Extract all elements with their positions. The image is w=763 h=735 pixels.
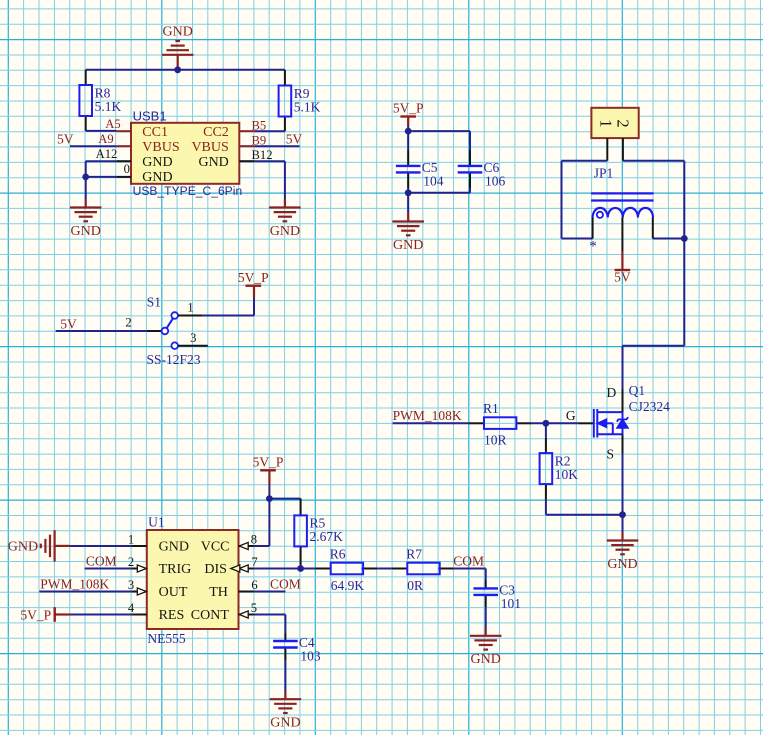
wire GND A12	[86, 160, 117, 162]
resistor R6 64.9K	[330, 546, 365, 593]
svg-text:64.9K: 64.9K	[331, 578, 365, 593]
svg-text:TRIG: TRIG	[159, 562, 192, 577]
wire up to 5V_P	[253, 298, 255, 316]
power stem left GND	[85, 199, 87, 208]
svg-text:GND: GND	[198, 155, 228, 170]
svg-text:TH: TH	[209, 585, 228, 600]
pin 4 RES	[131, 614, 146, 616]
power stem 5V_P pin4	[55, 613, 70, 615]
svg-text:VBUS: VBUS	[142, 140, 179, 155]
svg-text:CC1: CC1	[142, 125, 168, 140]
wire pin7 to R6	[254, 568, 315, 570]
wire C3 to GND	[485, 607, 487, 627]
svg-text:1: 1	[128, 532, 134, 546]
power stem GND pin1	[55, 545, 70, 547]
svg-text:7: 7	[251, 555, 257, 569]
wire right loop bottom	[653, 238, 685, 240]
svg-text:CJ2324: CJ2324	[629, 399, 671, 414]
transformer JP1 core lines	[591, 193, 654, 200]
svg-text:USB_TYPE_C_6Pin: USB_TYPE_C_6Pin	[133, 184, 243, 198]
svg-text:GND: GND	[270, 716, 300, 731]
junction source / R2	[619, 511, 626, 518]
svg-text:3: 3	[128, 578, 134, 592]
svg-text:OUT: OUT	[159, 585, 188, 600]
capacitor C6 pins	[469, 151, 471, 166]
wire pin1 left	[562, 160, 608, 162]
pin GND (0)	[116, 176, 131, 178]
ground GND below USB right	[269, 208, 301, 222]
svg-text:1: 1	[187, 300, 193, 314]
wire PWM to R1	[393, 422, 469, 424]
wire to left GND	[85, 177, 87, 199]
wire B12	[255, 160, 285, 162]
wire VBUS net 5V left	[70, 145, 116, 147]
svg-text:*: *	[589, 239, 597, 255]
svg-text:5V: 5V	[57, 132, 74, 147]
svg-text:3: 3	[190, 331, 196, 345]
header JP1 body (2-pin)	[591, 108, 638, 138]
resistor R1 10R	[483, 401, 516, 448]
junction R5 bottom / pin7	[297, 565, 304, 572]
svg-text:4: 4	[128, 601, 135, 615]
pin 5 CONT	[239, 614, 254, 616]
wire B9 net 5V right	[255, 145, 300, 147]
wire right loop down	[683, 161, 685, 239]
power stem 5V_P (S1)	[253, 286, 255, 298]
wire pin8	[254, 545, 270, 547]
resistor R9 5.1K	[279, 86, 321, 117]
resistor R5 pins	[300, 499, 302, 516]
power stem GND C4	[284, 691, 286, 700]
wire GND pin 0	[86, 176, 117, 178]
capacitor C4 103	[273, 641, 298, 648]
wire down to C3	[485, 569, 487, 581]
transformer winding pins	[592, 218, 594, 239]
resistor R7 pins	[392, 568, 407, 570]
ground GND top of USB section (flipped earth symbol)	[177, 55, 179, 70]
svg-text:S: S	[607, 446, 615, 461]
power 5V_P above U1	[253, 455, 284, 471]
resistor R8 5.1K	[79, 85, 121, 116]
pin GND (B12)	[239, 160, 254, 162]
power stem GND Q1	[621, 532, 623, 541]
wire C5 bottom	[407, 188, 409, 193]
wire B5 to R9	[255, 130, 285, 132]
resistor R5 2.67K	[294, 515, 343, 546]
pin VBUS (B9)	[239, 145, 254, 147]
IC U1 body NE555	[147, 530, 239, 629]
svg-text:5V_P: 5V_P	[238, 270, 269, 285]
resistor R2 10K	[540, 453, 579, 484]
wire R2 bottom	[545, 500, 547, 515]
wire pin2 right	[623, 160, 684, 162]
power 5V_P above C5	[393, 101, 424, 117]
svg-text:GND: GND	[163, 25, 193, 40]
wire R7 to COM node	[454, 568, 486, 570]
ground GND below Q1	[607, 541, 639, 555]
svg-text:B12: B12	[252, 148, 273, 162]
power stem 5V_P	[407, 117, 409, 127]
pin CC2 (B5)	[239, 130, 254, 132]
svg-text:104: 104	[423, 174, 444, 189]
resistor R2 pins	[545, 438, 547, 453]
junction USB left GND	[82, 174, 89, 181]
resistor R6 pins	[315, 568, 330, 570]
svg-text:Q1: Q1	[629, 383, 646, 398]
svg-text:A5: A5	[105, 117, 120, 131]
svg-text:GND: GND	[393, 238, 423, 253]
wire down to drain	[622, 346, 624, 389]
transistor Q1 gate pin	[578, 422, 593, 424]
svg-text:A12: A12	[96, 147, 118, 161]
wire 5V to switch	[56, 330, 147, 332]
svg-text:GND: GND	[142, 170, 172, 185]
svg-text:GND: GND	[8, 540, 38, 555]
svg-text:GND: GND	[471, 652, 501, 667]
svg-text:5V: 5V	[60, 317, 77, 332]
wire R6 to R7	[377, 568, 392, 570]
svg-text:CC2: CC2	[203, 125, 229, 140]
pin 6 TH	[239, 591, 254, 593]
transistor Q1 drain/source pins	[622, 389, 624, 412]
wire C6 top	[469, 131, 471, 150]
pin VBUS (A9)	[116, 145, 131, 147]
svg-text:10K: 10K	[555, 467, 579, 482]
svg-text:10R: 10R	[484, 433, 507, 448]
power stem GND C3	[485, 627, 487, 636]
svg-text:GND: GND	[71, 224, 101, 239]
svg-text:0: 0	[124, 162, 130, 176]
ground GND below C4	[270, 699, 302, 713]
svg-text:R1: R1	[483, 401, 499, 416]
wire 5V_P down	[407, 126, 409, 151]
wire GND to pin1	[70, 545, 132, 547]
svg-text:101: 101	[501, 596, 521, 611]
ground GND below USB left	[70, 208, 102, 222]
svg-text:SS-12F23: SS-12F23	[147, 352, 201, 367]
svg-text:5.1K: 5.1K	[95, 99, 122, 114]
svg-text:PWM_108K: PWM_108K	[40, 577, 109, 592]
connector USB1 body	[131, 123, 239, 184]
power stem GND C5	[407, 213, 409, 222]
wire top to C6	[408, 130, 470, 132]
resistor R9 pins	[284, 70, 286, 86]
resistor R8 pins	[85, 70, 87, 85]
wire C6 bottom	[469, 188, 471, 193]
capacitor C3 pins	[485, 581, 487, 589]
junction JP1 right	[681, 235, 688, 242]
pin GND (A12)	[116, 160, 131, 162]
power 5V_P at pin4 (rotated)	[20, 607, 54, 622]
wire COM to pin2	[85, 568, 132, 570]
junction top rail / GND	[174, 66, 181, 73]
svg-text:5V_P: 5V_P	[20, 608, 51, 623]
capacitor C6 106	[458, 166, 483, 173]
svg-text:VCC: VCC	[201, 540, 230, 555]
power stem 5V_P U1	[268, 470, 270, 485]
svg-text:DIS: DIS	[204, 562, 227, 577]
svg-text:2.67K: 2.67K	[310, 529, 344, 544]
switch S1	[147, 330, 162, 332]
resistor R1 pins	[469, 422, 484, 424]
ground GND below C3	[470, 636, 502, 650]
svg-text:2: 2	[614, 119, 633, 127]
wire left loop down	[561, 161, 563, 239]
svg-text:S1: S1	[147, 294, 161, 309]
wire switch pin1 to 5V_P	[202, 315, 254, 317]
svg-text:USB1: USB1	[133, 109, 167, 124]
wire over to drain	[623, 345, 685, 347]
svg-text:5V_P: 5V_P	[393, 101, 424, 116]
wire down to junction	[85, 161, 87, 177]
svg-text:GND: GND	[270, 224, 300, 239]
svg-text:GND: GND	[159, 540, 189, 555]
pin CC1 (A5)	[116, 130, 131, 132]
wire 5V_P to pin4	[70, 614, 132, 616]
svg-text:2: 2	[125, 316, 131, 330]
inductor winding JP1	[593, 208, 653, 218]
power 5V_P above S1	[238, 270, 269, 286]
phase dot marker	[597, 212, 603, 218]
svg-text:5V: 5V	[614, 269, 631, 284]
transistor Q1 MOSFET symbol	[594, 409, 628, 438]
svg-text:106: 106	[485, 174, 506, 189]
svg-text:6: 6	[251, 578, 257, 592]
wire C4 to GND	[284, 660, 286, 691]
wire JP1 to Q1 column	[683, 239, 685, 346]
pin 1 GND	[131, 545, 146, 547]
svg-text:VBUS: VBUS	[191, 140, 228, 155]
wire to GND Q1	[622, 515, 624, 532]
wire top rail R8-R9	[86, 69, 285, 71]
power stem 5V center tap	[621, 251, 623, 270]
svg-text:5.1K: 5.1K	[294, 99, 321, 114]
svg-text:2: 2	[128, 555, 134, 569]
svg-text:COM: COM	[86, 554, 117, 569]
capacitor C5 104	[396, 166, 421, 173]
resistor R7 0R	[406, 546, 439, 593]
wire R2 to source node	[546, 514, 623, 516]
ground GND at pin1 (rotated)	[41, 530, 55, 562]
wire to R5 top	[269, 498, 300, 500]
junction gate / R2	[543, 420, 550, 427]
capacitor C4 pins	[284, 633, 286, 641]
ground GND below C5/C6	[392, 222, 424, 236]
wire R5 corner	[300, 499, 302, 500]
svg-text:NE555: NE555	[147, 631, 185, 646]
pin 7 DIS	[239, 568, 254, 570]
svg-text:R7: R7	[406, 546, 422, 561]
svg-text:103: 103	[300, 649, 321, 664]
svg-text:5V_P: 5V_P	[253, 455, 284, 470]
ground bars GND top	[162, 41, 194, 55]
svg-text:0R: 0R	[407, 578, 423, 593]
svg-text:A9: A9	[98, 132, 113, 146]
capacitor C5 pins	[407, 151, 409, 166]
junction 5V_P / C5	[405, 128, 412, 135]
svg-text:RES: RES	[159, 608, 185, 623]
svg-text:U1: U1	[148, 515, 165, 530]
svg-text:CONT: CONT	[191, 608, 230, 623]
pin 3 OUT	[131, 591, 146, 593]
svg-text:1: 1	[597, 119, 616, 127]
svg-text:5V: 5V	[286, 132, 303, 147]
svg-text:5: 5	[251, 601, 257, 615]
svg-text:8: 8	[251, 532, 257, 546]
wire source down	[622, 453, 624, 515]
svg-text:D: D	[607, 385, 617, 400]
svg-text:PWM_108K: PWM_108K	[393, 408, 462, 423]
wire bottom C5-C6	[408, 192, 470, 194]
junction 5V_P / R5	[266, 495, 273, 502]
svg-text:JP1: JP1	[594, 166, 614, 181]
svg-text:GND: GND	[607, 557, 637, 572]
header JP1 pins	[606, 138, 608, 161]
wire CC1 to R8	[86, 130, 117, 132]
wire down to GND	[407, 193, 409, 213]
junction C5 bottom	[405, 189, 412, 196]
wire pin6 COM	[254, 591, 286, 593]
svg-text:COM: COM	[453, 554, 484, 569]
svg-text:GND: GND	[142, 155, 172, 170]
pin 2 TRIG	[131, 568, 146, 570]
power stem right GND	[284, 199, 286, 208]
power 5V below transformer	[614, 269, 631, 284]
svg-text:R6: R6	[330, 546, 346, 561]
wire 5V_P down to pin8	[268, 485, 270, 546]
wire down to C4	[284, 615, 286, 634]
wire R1 to gate	[532, 422, 579, 424]
wire junction to R2	[545, 423, 547, 437]
svg-text:COM: COM	[270, 577, 301, 592]
svg-text:G: G	[566, 408, 576, 423]
capacitor C3 101	[473, 588, 498, 595]
wire pin5	[254, 614, 286, 616]
wire B12 down to GND	[284, 161, 286, 199]
wire PWM to pin3	[39, 591, 131, 593]
pin 8 VCC	[239, 545, 254, 547]
wire left loop bottom	[562, 238, 593, 240]
